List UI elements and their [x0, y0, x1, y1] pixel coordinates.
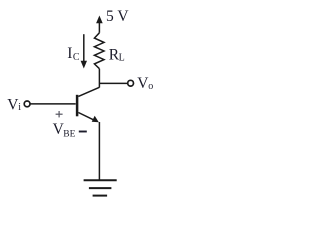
wire: resistor bottom to collector node [98, 69, 100, 88]
svg-text:C: C [73, 52, 80, 63]
transistor Q1 collector lead [78, 87, 99, 96]
ground [84, 180, 117, 195]
minus sign [79, 131, 87, 133]
supply arrow (5 V) [96, 16, 103, 33]
svg-text:o: o [148, 81, 153, 92]
svg-text:BE: BE [63, 130, 75, 140]
transistor Q1 base bar [76, 95, 79, 117]
svg-text:I: I [67, 45, 72, 62]
terminal Vo [128, 80, 134, 86]
wire: collector node to Vo terminal [99, 82, 127, 84]
terminal Vi [24, 101, 30, 107]
transistor Q1 emitter lead with arrow [78, 113, 98, 123]
plus sign [56, 111, 63, 117]
svg-text:L: L [119, 53, 125, 64]
wire: emitter down [98, 122, 100, 180]
svg-text:i: i [18, 102, 21, 113]
wire: input to base [31, 103, 76, 105]
current arrow IC [81, 34, 87, 68]
resistor RL [94, 33, 104, 69]
svg-text:5 V: 5 V [106, 8, 129, 25]
